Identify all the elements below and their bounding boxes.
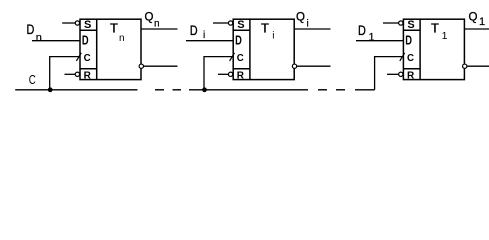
wire: clock rail dashed continuation 1: [155, 89, 181, 91]
inversion bubble on inverted output of U2: [292, 64, 296, 68]
svg-text:R: R: [84, 70, 92, 81]
dynamic-input slash on C of U3: [400, 53, 405, 61]
wire: clock rail segment 2: [189, 89, 308, 91]
inversion bubble on S input of U1: [75, 21, 79, 25]
svg-text:1: 1: [442, 30, 448, 42]
svg-text:D: D: [358, 23, 366, 39]
wire: inverted output stub of U1: [143, 65, 177, 67]
wire: clock rail segment 1: [15, 89, 137, 91]
svg-text:D: D: [235, 34, 242, 48]
wire: R input stub of U3: [387, 73, 399, 75]
function label T1 of U3: [431, 21, 448, 42]
svg-text:D: D: [82, 34, 89, 48]
svg-text:T: T: [261, 21, 269, 36]
flip-flop U2 (Ti) body: [233, 19, 294, 79]
flip-flop U1 (Tn) body: [80, 19, 141, 79]
wire: C input of U1 from clock rail: [50, 56, 80, 90]
wire: D input of U3: [356, 40, 403, 42]
svg-text:1: 1: [479, 16, 485, 28]
wire: inverted output stub of U2: [297, 65, 331, 67]
wire: Qi output of U2: [294, 28, 330, 30]
inversion bubble on inverted output of U1: [139, 64, 143, 68]
wire: Q1 output of U3: [464, 28, 489, 30]
svg-text:R: R: [237, 70, 245, 81]
wire: D input of U1: [32, 40, 80, 42]
svg-text:D: D: [405, 34, 412, 48]
svg-text:C: C: [29, 74, 36, 88]
wire: S input stub of U3: [383, 22, 399, 24]
inversion bubble on S input of U2: [228, 21, 232, 25]
wire: S input stub of U1: [62, 22, 75, 24]
function label Ti of U2: [261, 21, 275, 42]
svg-text:R: R: [407, 70, 415, 81]
svg-text:Q: Q: [296, 11, 305, 23]
svg-text:D: D: [27, 22, 35, 38]
dynamic-input slash on C of U1: [76, 53, 81, 61]
wire: Qn output of U1: [141, 28, 178, 30]
wire: D input of U2: [186, 40, 233, 42]
svg-text:i: i: [203, 30, 205, 41]
svg-text:Q: Q: [469, 11, 478, 23]
function label Tn of U1: [110, 21, 125, 44]
node Dn label: [27, 22, 42, 44]
inversion bubble on R input of U3: [399, 72, 403, 76]
junction on clock rail at U1 C: [48, 87, 53, 92]
svg-text:S: S: [84, 19, 91, 31]
svg-text:i: i: [272, 31, 274, 42]
svg-text:Q: Q: [145, 12, 154, 24]
junction on clock rail at U2 C: [202, 87, 207, 92]
svg-text:D: D: [190, 23, 198, 39]
inversion bubble on S input of U3: [399, 21, 403, 25]
svg-text:S: S: [237, 19, 244, 31]
wire: C input of U2 from clock rail: [204, 56, 233, 90]
wire: S input stub of U2: [213, 22, 229, 24]
node Qi label: [296, 11, 309, 29]
svg-text:C: C: [84, 53, 91, 64]
svg-text:n: n: [154, 18, 160, 29]
node Qn label: [145, 12, 160, 30]
svg-text:T: T: [110, 21, 118, 36]
dynamic-input slash on C of U2: [230, 53, 235, 61]
node Di label: [190, 23, 205, 41]
inversion bubble on R input of U2: [228, 72, 232, 76]
wire: clock rail segment 3: [355, 89, 375, 91]
flip-flop U3 (T1) body: [403, 19, 464, 79]
svg-text:T: T: [431, 21, 439, 36]
wire: C input of U3 from clock rail: [375, 56, 404, 90]
svg-text:n: n: [119, 33, 125, 44]
wire: R input stub of U1: [65, 73, 76, 75]
svg-text:S: S: [407, 19, 414, 31]
node D1 label: [358, 23, 375, 44]
svg-text:C: C: [407, 53, 414, 64]
node Q1 label: [469, 11, 486, 28]
svg-text:i: i: [307, 18, 309, 29]
wire: clock rail dashed continuation 2: [318, 89, 345, 91]
inversion bubble on R input of U1: [75, 72, 79, 76]
wire: R input stub of U2: [218, 73, 229, 75]
svg-text:1: 1: [369, 31, 375, 43]
svg-text:n: n: [36, 32, 42, 44]
wire: inverted output stub of U3: [467, 65, 489, 67]
svg-text:C: C: [237, 53, 244, 64]
inversion bubble on inverted output of U3: [463, 64, 467, 68]
